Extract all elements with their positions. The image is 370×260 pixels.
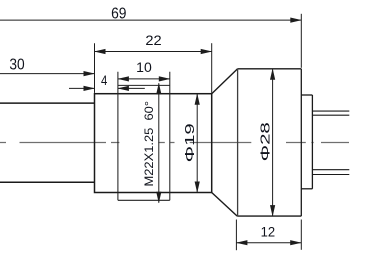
svg-text:12: 12 xyxy=(261,225,276,240)
cone bottom edge xyxy=(212,193,238,217)
thread boundary right xyxy=(169,72,171,201)
svg-text:69: 69 xyxy=(111,5,126,22)
connector bottom edge xyxy=(301,188,312,190)
connector right edge xyxy=(311,95,313,189)
centerline (axis, dash-dot gray) xyxy=(0,142,349,144)
svg-text:10: 10 xyxy=(136,59,152,75)
dimension phi19 (vertical) xyxy=(195,93,200,193)
dimension 10 xyxy=(117,76,170,81)
dimension phi28 (vertical) xyxy=(270,68,275,216)
dimension 30 xyxy=(0,71,95,76)
svg-text:M22X1.25 60°: M22X1.25 60° xyxy=(142,101,156,187)
shaft bottom edge xyxy=(0,181,95,183)
dimension 12 xyxy=(236,220,302,251)
wire 2 bottom xyxy=(312,174,349,176)
wire 1 top xyxy=(312,110,349,112)
dimension M22X1.25 60 (vertical) xyxy=(156,83,161,204)
threaded boss outline xyxy=(95,94,212,193)
svg-text:Φ19: Φ19 xyxy=(182,123,197,162)
svg-text:4: 4 xyxy=(101,72,107,88)
thread boundary left xyxy=(117,72,119,201)
connector top edge xyxy=(301,94,312,96)
hex body bottom edge xyxy=(237,215,301,217)
svg-text:22: 22 xyxy=(145,32,162,48)
svg-text:30: 30 xyxy=(9,57,24,74)
hex body left edge xyxy=(237,69,239,216)
hex body top edge (phi 28) xyxy=(238,68,302,70)
cone top edge xyxy=(212,69,238,94)
dimension 4 (outside arrows) xyxy=(69,86,145,91)
dimension 22 xyxy=(94,43,212,93)
thread crest line top xyxy=(118,84,170,86)
wire 2 top xyxy=(312,169,349,171)
wire 1 bottom xyxy=(312,114,349,116)
shaft top edge xyxy=(0,102,95,104)
hex body right edge xyxy=(300,69,302,216)
dimension 69 xyxy=(0,14,302,68)
thread crest line bottom xyxy=(118,199,170,201)
svg-text:Φ28: Φ28 xyxy=(258,122,273,161)
